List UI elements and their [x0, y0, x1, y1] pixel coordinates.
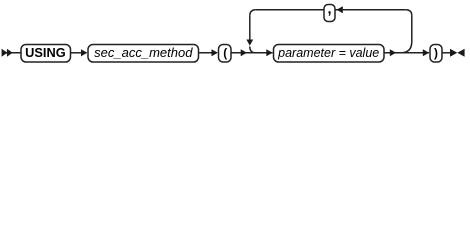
wire: loop right bottom arc from rail	[401, 42, 412, 53]
wire: loop left vertical	[249, 16, 251, 40]
svg-text:parameter = value: parameter = value	[277, 46, 379, 60]
svg-text:,: ,	[327, 1, 331, 17]
arrowhead before parameter box	[266, 49, 272, 56]
wire: sec_acc_method to (	[199, 52, 218, 54]
wire: USING to sec_acc_method	[71, 52, 87, 54]
variable box sec_acc_method	[88, 45, 199, 63]
arrowhead after parameter box	[390, 49, 396, 56]
arrowhead before sec_acc_method	[81, 49, 87, 56]
arrowhead before (	[212, 49, 218, 56]
arrowhead before loop junction	[241, 49, 247, 56]
end symbol arrows	[450, 49, 457, 57]
wire: ( to parameter box	[231, 52, 273, 54]
wire: loop top-left corner arc	[250, 10, 256, 16]
wire: main rail start to USING	[3, 52, 21, 54]
wire: parameter box to )	[384, 52, 429, 54]
wire: loop top-right corner arc	[406, 10, 412, 16]
svg-text:sec_acc_method: sec_acc_method	[94, 45, 193, 60]
arrowhead down on loop left vertical	[246, 40, 253, 46]
arrowhead before )	[423, 49, 429, 56]
terminal box (	[219, 45, 232, 63]
arrowhead left after comma box	[337, 6, 343, 13]
start symbol arrows	[2, 49, 8, 57]
terminal box , (loop separator)	[324, 5, 335, 22]
wire: loop right vertical	[411, 16, 413, 42]
wire: loop left bottom arc into rail	[250, 47, 256, 53]
svg-text:): )	[434, 46, 438, 60]
keyword box USING	[21, 45, 71, 63]
wire: loop top rail right segment	[335, 9, 406, 11]
svg-text:USING: USING	[25, 45, 66, 60]
svg-text:(: (	[223, 46, 227, 60]
terminal box )	[430, 45, 442, 63]
variable box parameter = value	[274, 45, 385, 63]
wire: loop top rail left segment	[256, 9, 324, 11]
wire: ) to end symbol	[442, 52, 451, 54]
